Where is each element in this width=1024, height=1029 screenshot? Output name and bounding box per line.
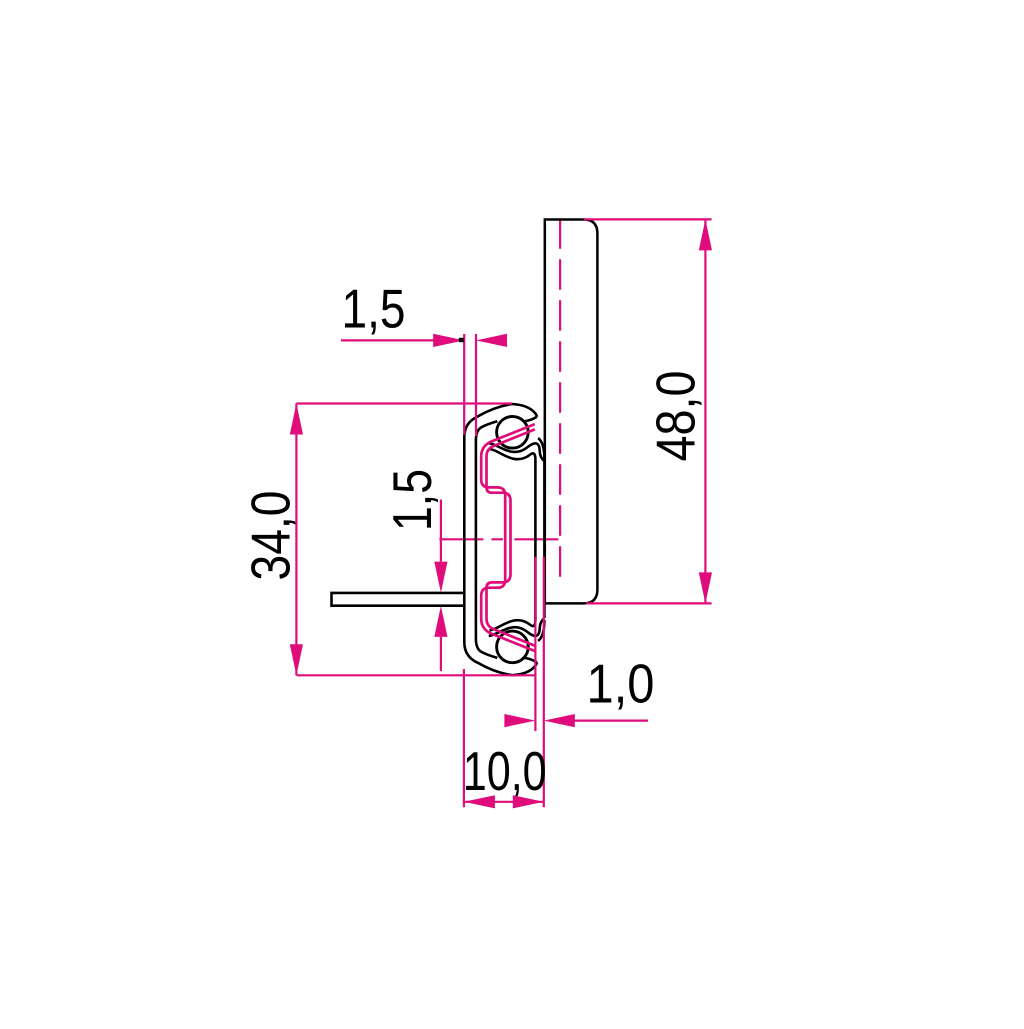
inner rail profile stroke A — [481, 424, 535, 651]
dimension 1,0: extension line left — [534, 557, 536, 731]
dimension 1,0: left-pointing arrow — [544, 714, 575, 727]
dimension 1,5 top: extension line left — [463, 334, 465, 435]
svg-text:1,5: 1,5 — [342, 278, 406, 340]
dimension 1,5 top: right-pointing arrow — [433, 334, 464, 347]
dimension 48,0: up arrow — [699, 219, 712, 250]
dimension 1,0: extension line right (shared with 10,0) — [543, 557, 545, 808]
bottom raceway upper line — [489, 618, 544, 636]
cabinet rail web right line — [543, 461, 546, 618]
dimension 10,0: extension line left — [463, 669, 465, 807]
dimension 10,0: right-pointing arrow — [513, 795, 544, 808]
svg-text:34,0: 34,0 — [239, 491, 301, 581]
dimension 48,0: down arrow — [699, 572, 712, 603]
dimension 1,5 top: line — [341, 339, 434, 341]
outer rail inner contour — [476, 421, 497, 658]
dimension 1,5 inner: down arrow — [434, 562, 447, 593]
dimension 34,0: bottom extension line — [296, 674, 536, 676]
centerline vertical (mounting plate axis) — [559, 218, 561, 581]
bottom hook inner edge — [525, 658, 537, 662]
inner rail profile stroke B — [487, 429, 535, 645]
dimension 1,5 top: extension line right — [475, 334, 477, 436]
cabinet rail bottom lip — [538, 620, 544, 641]
svg-text:1,5: 1,5 — [381, 469, 443, 531]
top raceway lower line — [490, 449, 536, 462]
bottom raceway lower line — [490, 617, 536, 631]
dimension 34,0: dimension line — [295, 404, 297, 676]
dimension 48,0: dimension line — [704, 219, 706, 603]
dimension 10,0: dimension line — [464, 801, 544, 803]
bottom ball bearing — [497, 631, 529, 663]
dimension 34,0: up arrow — [290, 404, 303, 435]
dimension 1,5 top: left-pointing arrow — [476, 334, 507, 347]
cabinet rail web left line — [534, 462, 537, 618]
dimension 48,0: top extension line — [584, 218, 712, 220]
cabinet rail top lip — [538, 438, 544, 459]
top ball bearing — [497, 417, 529, 449]
svg-text:10,0: 10,0 — [463, 740, 547, 802]
dimension 1,0: tail line — [574, 719, 648, 721]
svg-text:1,0: 1,0 — [587, 653, 655, 715]
top raceway upper line — [489, 443, 544, 461]
mounting plate (tall rectangle) — [545, 220, 598, 604]
dimension 1,5 inner: upper line — [440, 500, 442, 562]
top hook inner edge — [525, 417, 537, 421]
dimension 34,0: down arrow — [290, 644, 303, 675]
centerline horizontal (slide axis) — [439, 538, 560, 540]
small black tick at 1,5 arrow junction — [459, 338, 464, 342]
mounting flange bar — [332, 593, 465, 606]
outer rail outer contour — [464, 404, 537, 675]
dimension 34,0: top extension line — [296, 402, 512, 404]
dimension 48,0: bottom extension line — [586, 602, 712, 604]
svg-text:48,0: 48,0 — [645, 371, 707, 462]
dimension 1,5 inner: lower line — [440, 637, 442, 671]
dimension 10,0: left-pointing arrow — [464, 795, 495, 808]
dimension 1,0: right-pointing arrow — [504, 714, 535, 727]
dimension 1,5 inner: up arrow — [434, 606, 447, 637]
